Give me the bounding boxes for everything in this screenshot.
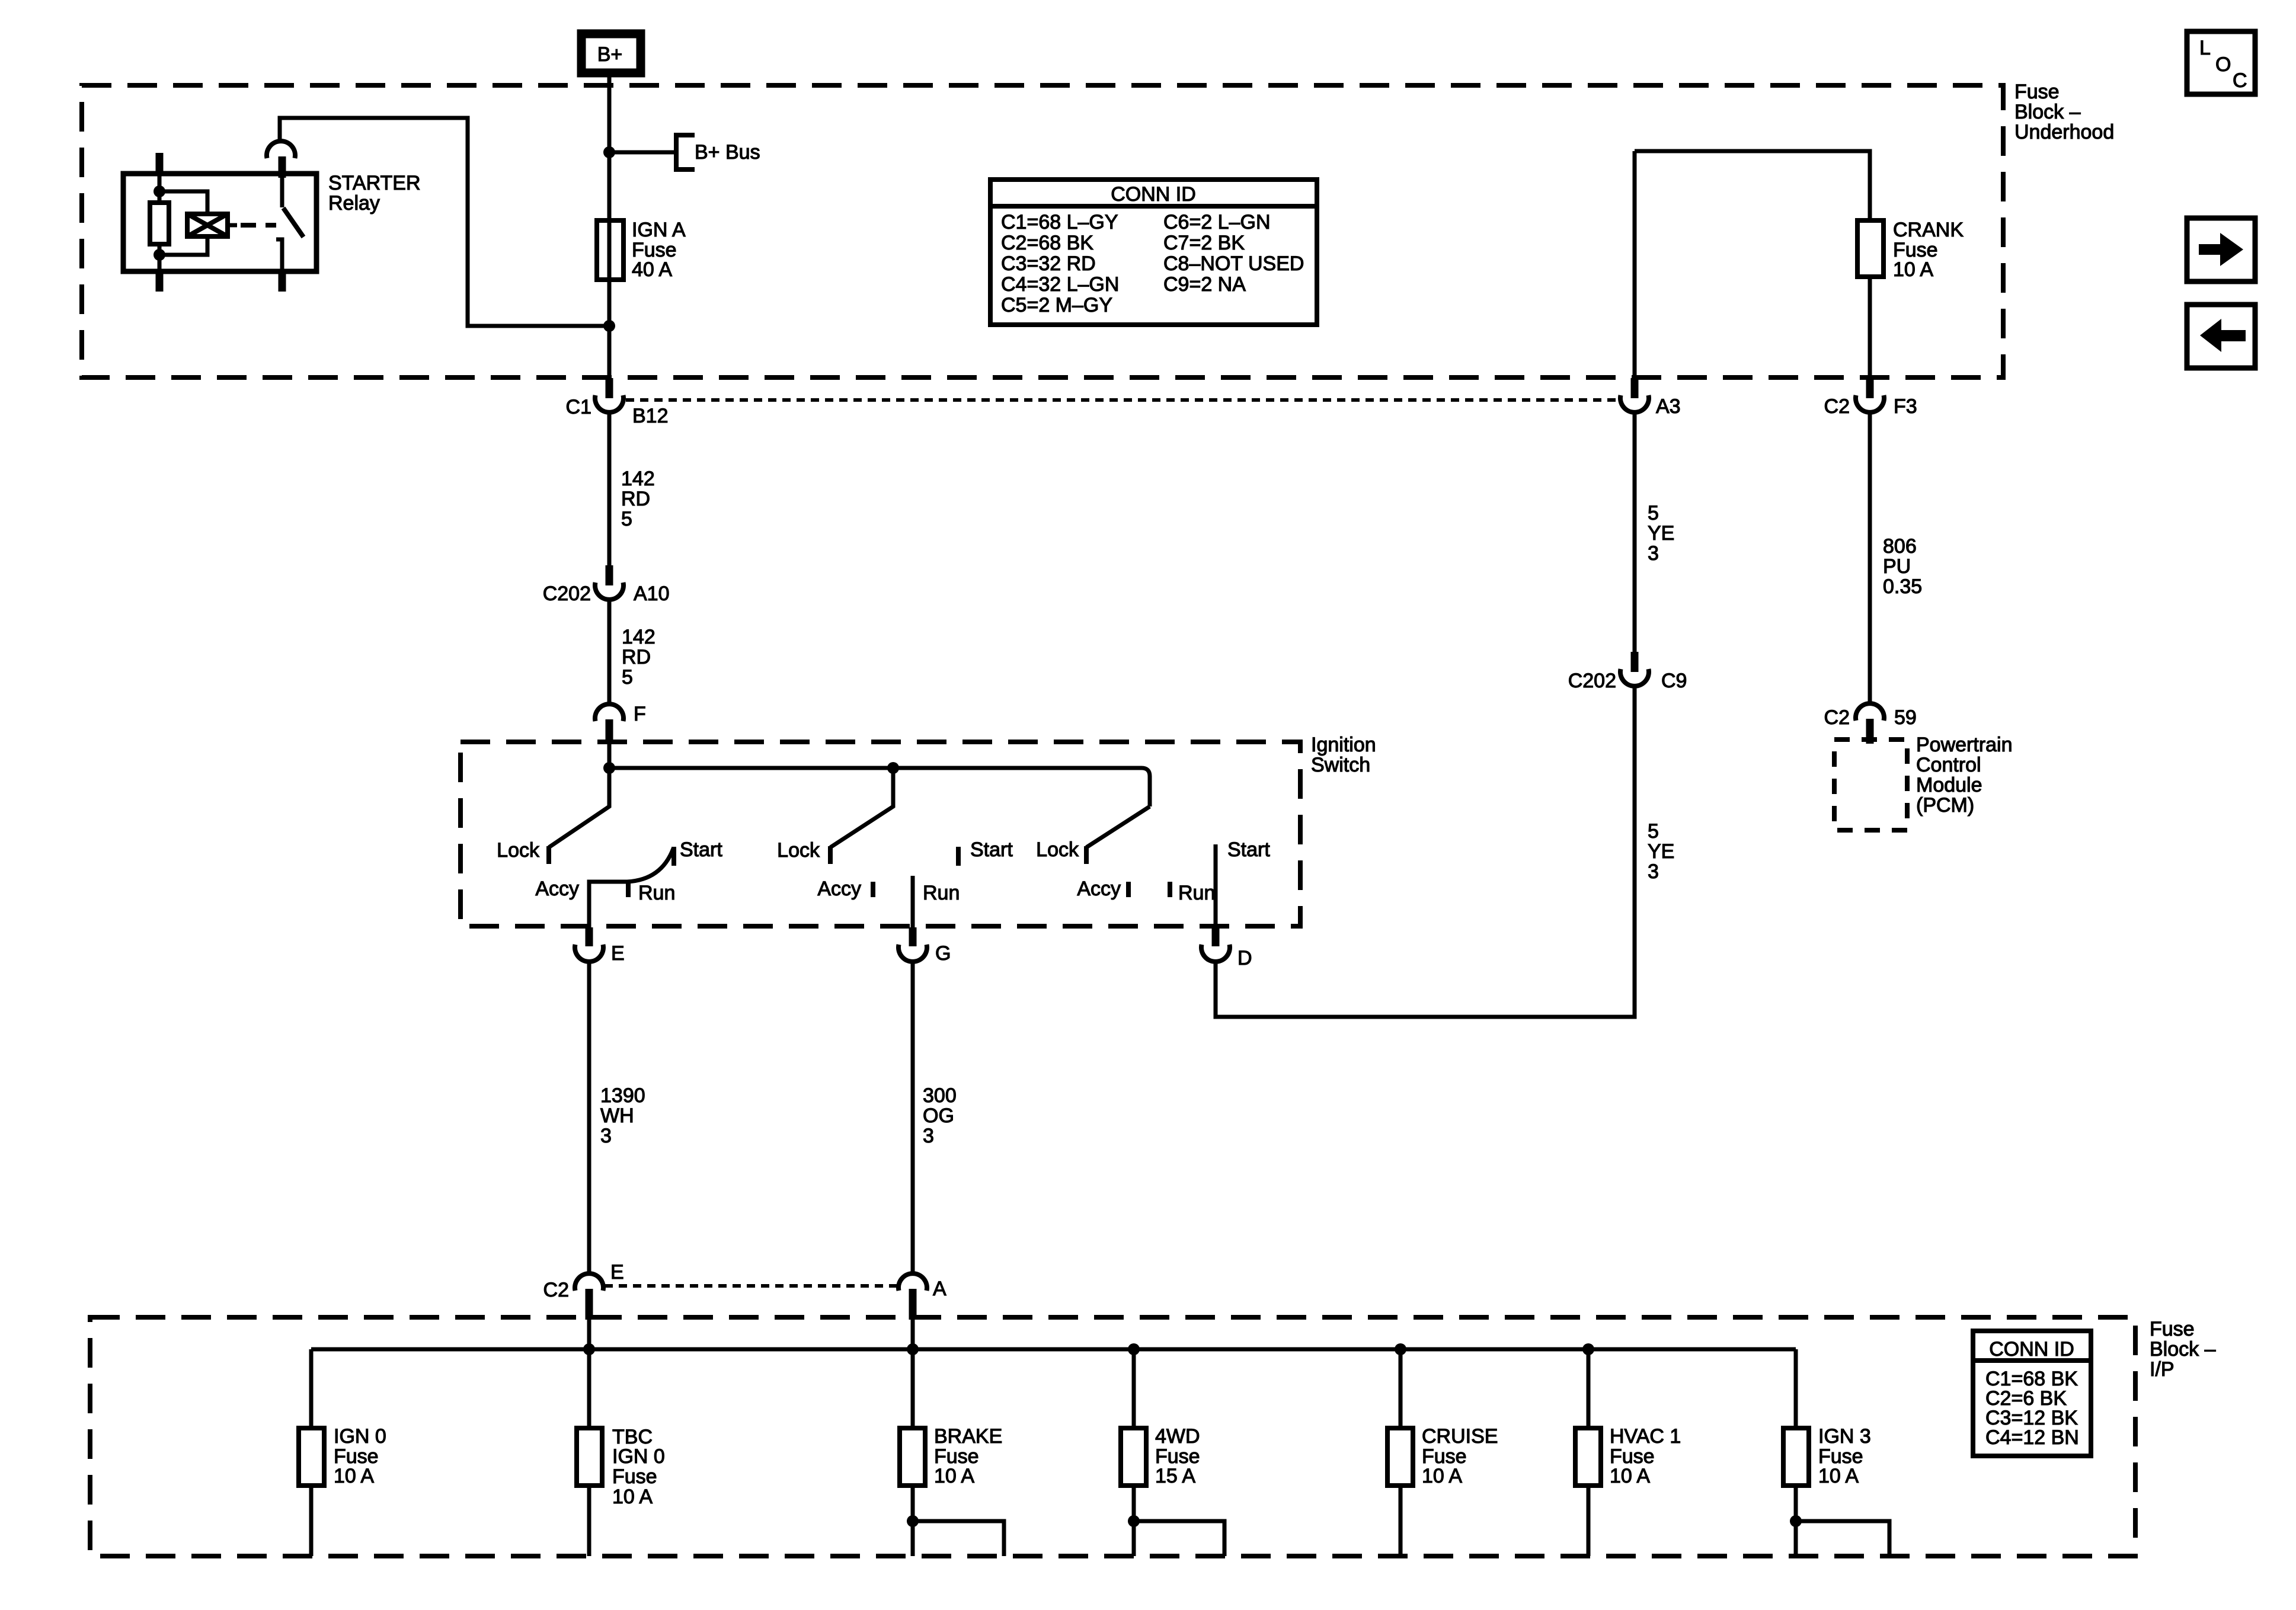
svg-text:Module: Module — [1916, 774, 1982, 796]
svg-text:C202: C202 — [543, 582, 591, 605]
svg-text:C3=32 RD: C3=32 RD — [1001, 252, 1096, 275]
svg-text:F: F — [634, 703, 646, 725]
connector C1 B12 — [566, 378, 669, 427]
svg-text:10 A: 10 A — [612, 1486, 653, 1508]
svg-text:L: L — [2199, 37, 2211, 59]
wire IP distribution bus — [311, 1347, 1796, 1352]
contact Run bank3 — [1168, 882, 1172, 897]
svg-text:A: A — [933, 1278, 946, 1300]
svg-text:10 A: 10 A — [1610, 1465, 1650, 1487]
label 142 RD 5 lower — [622, 626, 655, 689]
svg-text:3: 3 — [600, 1125, 612, 1147]
wire ignition feed bus — [609, 768, 1150, 806]
svg-text:YE: YE — [1648, 522, 1674, 545]
connector E ignition — [575, 927, 625, 965]
svg-text:Lock: Lock — [497, 839, 540, 862]
wire 4WD branch — [1132, 1349, 1136, 1556]
connector D ignition — [1201, 927, 1252, 969]
node bus CRUISE — [1395, 1343, 1406, 1355]
svg-text:Powertrain: Powertrain — [1916, 734, 2013, 756]
node B+ bus tap — [603, 146, 615, 158]
wire BRAKE branch — [911, 1349, 915, 1556]
svg-text:3: 3 — [1648, 860, 1659, 883]
svg-text:Control: Control — [1916, 754, 1981, 776]
svg-text:Accy: Accy — [1077, 878, 1121, 900]
svg-text:B+: B+ — [597, 43, 623, 66]
connector C2 F3 — [1824, 378, 1917, 418]
wire F3 to PCM — [1868, 412, 1872, 703]
svg-text:HVAC 1: HVAC 1 — [1610, 1425, 1681, 1448]
svg-text:142: 142 — [621, 468, 655, 490]
wire relay switch loop — [280, 118, 609, 326]
svg-text:I/P: I/P — [2150, 1358, 2175, 1381]
harness dotted line C1 to A3 — [626, 398, 1619, 402]
svg-text:10 A: 10 A — [334, 1465, 374, 1487]
connector C202 C9 — [1568, 652, 1687, 692]
svg-text:Lock: Lock — [777, 839, 820, 862]
fuse HVAC 1 10A — [1575, 1425, 1681, 1487]
svg-text:C1: C1 — [566, 396, 591, 418]
label Fuse Block - IP — [2150, 1318, 2216, 1381]
label 142 RD 5 upper — [621, 468, 655, 530]
contact Accy bank2 — [871, 882, 875, 897]
wire IGN 0 branch — [309, 1349, 314, 1556]
svg-text:5: 5 — [621, 508, 632, 530]
label 5 YE 3 upper — [1648, 502, 1674, 565]
wire 142 RD lower — [607, 600, 612, 704]
svg-text:Ignition: Ignition — [1311, 734, 1376, 756]
node IGN 3 stub — [1790, 1515, 1802, 1527]
wire 300 OG to fuse block — [911, 962, 915, 1273]
svg-text:Block –: Block – — [2014, 101, 2081, 123]
fuse CRANK 10A — [1857, 219, 1964, 281]
wire to B+ bus — [609, 151, 674, 155]
svg-text:59: 59 — [1894, 706, 1917, 729]
label 5 YE 3 lower — [1648, 820, 1674, 883]
connector C2 59 PCM — [1824, 703, 1917, 744]
svg-text:Fuse: Fuse — [612, 1465, 657, 1488]
label Fuse Block - Underhood — [2014, 81, 2114, 143]
connector C2 E fuse block IP — [543, 1261, 624, 1320]
contact Lock bank1 — [546, 846, 551, 864]
svg-text:Accy: Accy — [817, 878, 861, 900]
loc legend box — [2187, 31, 2255, 94]
wire crank fuse to F3 — [1868, 277, 1872, 379]
svg-text:E: E — [611, 942, 625, 965]
svg-text:IGN 3: IGN 3 — [1818, 1425, 1871, 1448]
svg-text:IGN A: IGN A — [632, 219, 686, 241]
svg-text:0.35: 0.35 — [1883, 575, 1922, 598]
switch bank2 wiper to Lock — [830, 768, 893, 847]
svg-text:5: 5 — [1648, 820, 1659, 843]
svg-text:5: 5 — [622, 666, 633, 689]
contact Start bank2 — [956, 847, 961, 866]
contact Lock bank2 — [828, 846, 833, 864]
svg-text:C5=2 M–GY: C5=2 M–GY — [1001, 294, 1112, 316]
svg-text:C2: C2 — [543, 1279, 569, 1301]
svg-text:C9=2 NA: C9=2 NA — [1163, 273, 1246, 296]
wire 1390 WH to fuse block — [587, 962, 591, 1273]
svg-text:B12: B12 — [632, 405, 669, 427]
label 300 OG 3 — [923, 1084, 957, 1147]
svg-text:C9: C9 — [1661, 670, 1687, 692]
node ignition feed middle — [887, 762, 899, 774]
fuse IGN 0 10A — [299, 1425, 386, 1487]
svg-text:Switch: Switch — [1311, 754, 1370, 776]
svg-text:G: G — [935, 942, 951, 965]
wire HVAC1 branch — [1587, 1349, 1591, 1556]
svg-text:C7=2 BK: C7=2 BK — [1163, 232, 1245, 254]
svg-text:C2=68 BK: C2=68 BK — [1001, 232, 1093, 254]
battery terminal B+ — [581, 34, 641, 73]
svg-text:C2: C2 — [1824, 706, 1850, 729]
fuse block IP dashed box — [90, 1317, 2135, 1556]
wire Start bank3 to D — [1214, 844, 1218, 929]
label 1390 WH 3 — [600, 1084, 645, 1147]
svg-text:BRAKE: BRAKE — [934, 1425, 1002, 1448]
svg-text:10 A: 10 A — [934, 1465, 974, 1487]
svg-text:C4=32 L–GN: C4=32 L–GN — [1001, 273, 1119, 296]
conn id table IP — [1973, 1331, 2091, 1456]
svg-text:A10: A10 — [634, 582, 670, 605]
svg-text:YE: YE — [1648, 840, 1674, 863]
svg-text:Relay: Relay — [328, 192, 380, 215]
harness dotted line E to A — [605, 1284, 897, 1288]
connector G ignition — [898, 927, 951, 965]
svg-text:4WD: 4WD — [1155, 1425, 1200, 1448]
wire A3 vertical upper — [1633, 151, 1637, 379]
svg-text:3: 3 — [1648, 542, 1659, 565]
svg-text:CRANK: CRANK — [1893, 219, 1964, 241]
svg-text:10 A: 10 A — [1893, 258, 1933, 281]
fuse CRUISE 10A — [1387, 1425, 1498, 1487]
wire D to crank request — [1216, 686, 1635, 1017]
svg-text:OG: OG — [923, 1105, 954, 1127]
svg-text:Run: Run — [638, 882, 675, 904]
fuse TBC IGN 0 10A — [577, 1426, 665, 1508]
wire CRUISE branch — [1399, 1349, 1403, 1556]
svg-text:5: 5 — [1648, 502, 1659, 524]
svg-text:RD: RD — [621, 488, 650, 510]
svg-text:F3: F3 — [1894, 395, 1917, 418]
svg-text:C1=68 L–GY: C1=68 L–GY — [1001, 211, 1118, 233]
svg-text:Fuse: Fuse — [2014, 81, 2060, 103]
label 806 PU 0.35 — [1883, 535, 1922, 598]
connector C202 A10 — [543, 565, 670, 605]
conn id table underhood — [990, 180, 1317, 325]
svg-text:300: 300 — [923, 1084, 957, 1107]
fuse IGN A 40A — [597, 219, 686, 281]
wire BRAKE stub — [913, 1521, 1004, 1556]
svg-text:IGN 0: IGN 0 — [334, 1425, 386, 1448]
fuse 4WD 15A — [1121, 1425, 1200, 1487]
svg-text:D: D — [1237, 947, 1252, 969]
wire IGN 3 branch — [1794, 1349, 1798, 1556]
fuse block underhood dashed box — [82, 85, 2003, 377]
node bus TBC — [583, 1343, 595, 1355]
fuse BRAKE 10A — [900, 1425, 1002, 1487]
node relay loop junction — [603, 320, 615, 332]
switch bank1 wiper to Lock — [549, 768, 609, 847]
svg-text:Start: Start — [1227, 838, 1270, 861]
svg-text:IGN 0: IGN 0 — [612, 1445, 665, 1468]
wire TBC branch — [587, 1349, 591, 1556]
svg-text:C4=12 BN: C4=12 BN — [1985, 1426, 2079, 1449]
svg-text:3: 3 — [923, 1125, 934, 1147]
label STARTER Relay — [328, 172, 421, 215]
wire crank feed horizontal — [1635, 151, 1870, 220]
svg-text:10 A: 10 A — [1422, 1465, 1462, 1487]
wire 4WD stub — [1134, 1521, 1224, 1556]
svg-text:E: E — [610, 1261, 624, 1283]
label Ignition Switch — [1311, 734, 1376, 776]
contact Run bank1 — [626, 882, 631, 897]
wire IGN 3 stub — [1796, 1521, 1889, 1556]
svg-text:15 A: 15 A — [1155, 1465, 1195, 1487]
svg-text:CRUISE: CRUISE — [1422, 1425, 1498, 1448]
svg-text:C2: C2 — [1824, 395, 1850, 418]
svg-text:Start: Start — [680, 838, 722, 861]
svg-text:C6=2 L–GN: C6=2 L–GN — [1163, 211, 1271, 233]
svg-text:WH: WH — [600, 1105, 634, 1127]
node bus HVAC1 — [1582, 1343, 1594, 1355]
svg-text:Accy: Accy — [535, 878, 579, 900]
contact Accy bank3 — [1126, 882, 1131, 897]
node ignition feed left — [603, 762, 615, 774]
svg-text:CONN ID: CONN ID — [1111, 183, 1196, 206]
connector B+ Bus bracket — [676, 135, 695, 169]
wire E into bus — [587, 1320, 591, 1349]
svg-text:O: O — [2215, 53, 2231, 76]
wire Run bank2 to G — [911, 876, 915, 929]
svg-text:B+ Bus: B+ Bus — [695, 141, 760, 164]
wire A3 to C9 — [1633, 412, 1637, 652]
svg-text:40 A: 40 A — [632, 258, 672, 281]
connector A3 — [1620, 378, 1681, 418]
svg-text:PU: PU — [1883, 555, 1911, 578]
wire B+ feed down — [607, 77, 612, 379]
fuse IGN 3 10A — [1783, 1425, 1871, 1487]
node BRAKE stub — [907, 1515, 919, 1527]
ignition switch dashed box — [461, 742, 1300, 926]
starter relay K1 — [123, 141, 316, 292]
svg-text:C8–NOT USED: C8–NOT USED — [1163, 252, 1304, 275]
node 4WD stub — [1128, 1515, 1140, 1527]
wiper arc Run to Start bank1 — [627, 849, 673, 882]
svg-text:C: C — [2233, 69, 2247, 92]
switch bank3 wiper to Lock — [1086, 806, 1150, 847]
wire Accy elbow bank1 — [589, 882, 627, 929]
svg-text:RD: RD — [622, 646, 651, 668]
connector A fuse block IP — [898, 1273, 946, 1320]
svg-text:10 A: 10 A — [1818, 1465, 1859, 1487]
contact Lock bank3 — [1084, 846, 1089, 864]
svg-text:Start: Start — [970, 838, 1013, 861]
svg-text:A3: A3 — [1656, 395, 1681, 418]
svg-text:CONN ID: CONN ID — [1989, 1338, 2074, 1361]
svg-text:Fuse: Fuse — [2150, 1318, 2195, 1340]
node bus 4WD — [1128, 1343, 1140, 1355]
wire 142 RD upper — [607, 413, 612, 565]
svg-text:C202: C202 — [1568, 670, 1616, 692]
label Powertrain Control Module PCM — [1916, 734, 2013, 817]
svg-text:Run: Run — [923, 882, 960, 904]
svg-text:142: 142 — [622, 626, 655, 648]
arrow next box — [2187, 218, 2255, 281]
svg-text:806: 806 — [1883, 535, 1917, 558]
connector F ignition switch — [595, 703, 646, 741]
svg-text:(PCM): (PCM) — [1916, 794, 1974, 817]
contact Start bank1 — [671, 847, 676, 866]
wire A into bus — [911, 1320, 915, 1349]
svg-text:Underhood: Underhood — [2014, 121, 2114, 143]
wire F into switch — [607, 741, 612, 768]
svg-text:STARTER: STARTER — [328, 172, 421, 194]
node bus BRAKE — [907, 1343, 919, 1355]
svg-text:1390: 1390 — [600, 1084, 645, 1107]
svg-text:Run: Run — [1178, 882, 1215, 904]
svg-text:Block –: Block – — [2150, 1338, 2216, 1361]
arrow previous box — [2187, 305, 2255, 368]
svg-text:Lock: Lock — [1036, 838, 1079, 861]
powertrain control module dashed box — [1834, 740, 1907, 830]
